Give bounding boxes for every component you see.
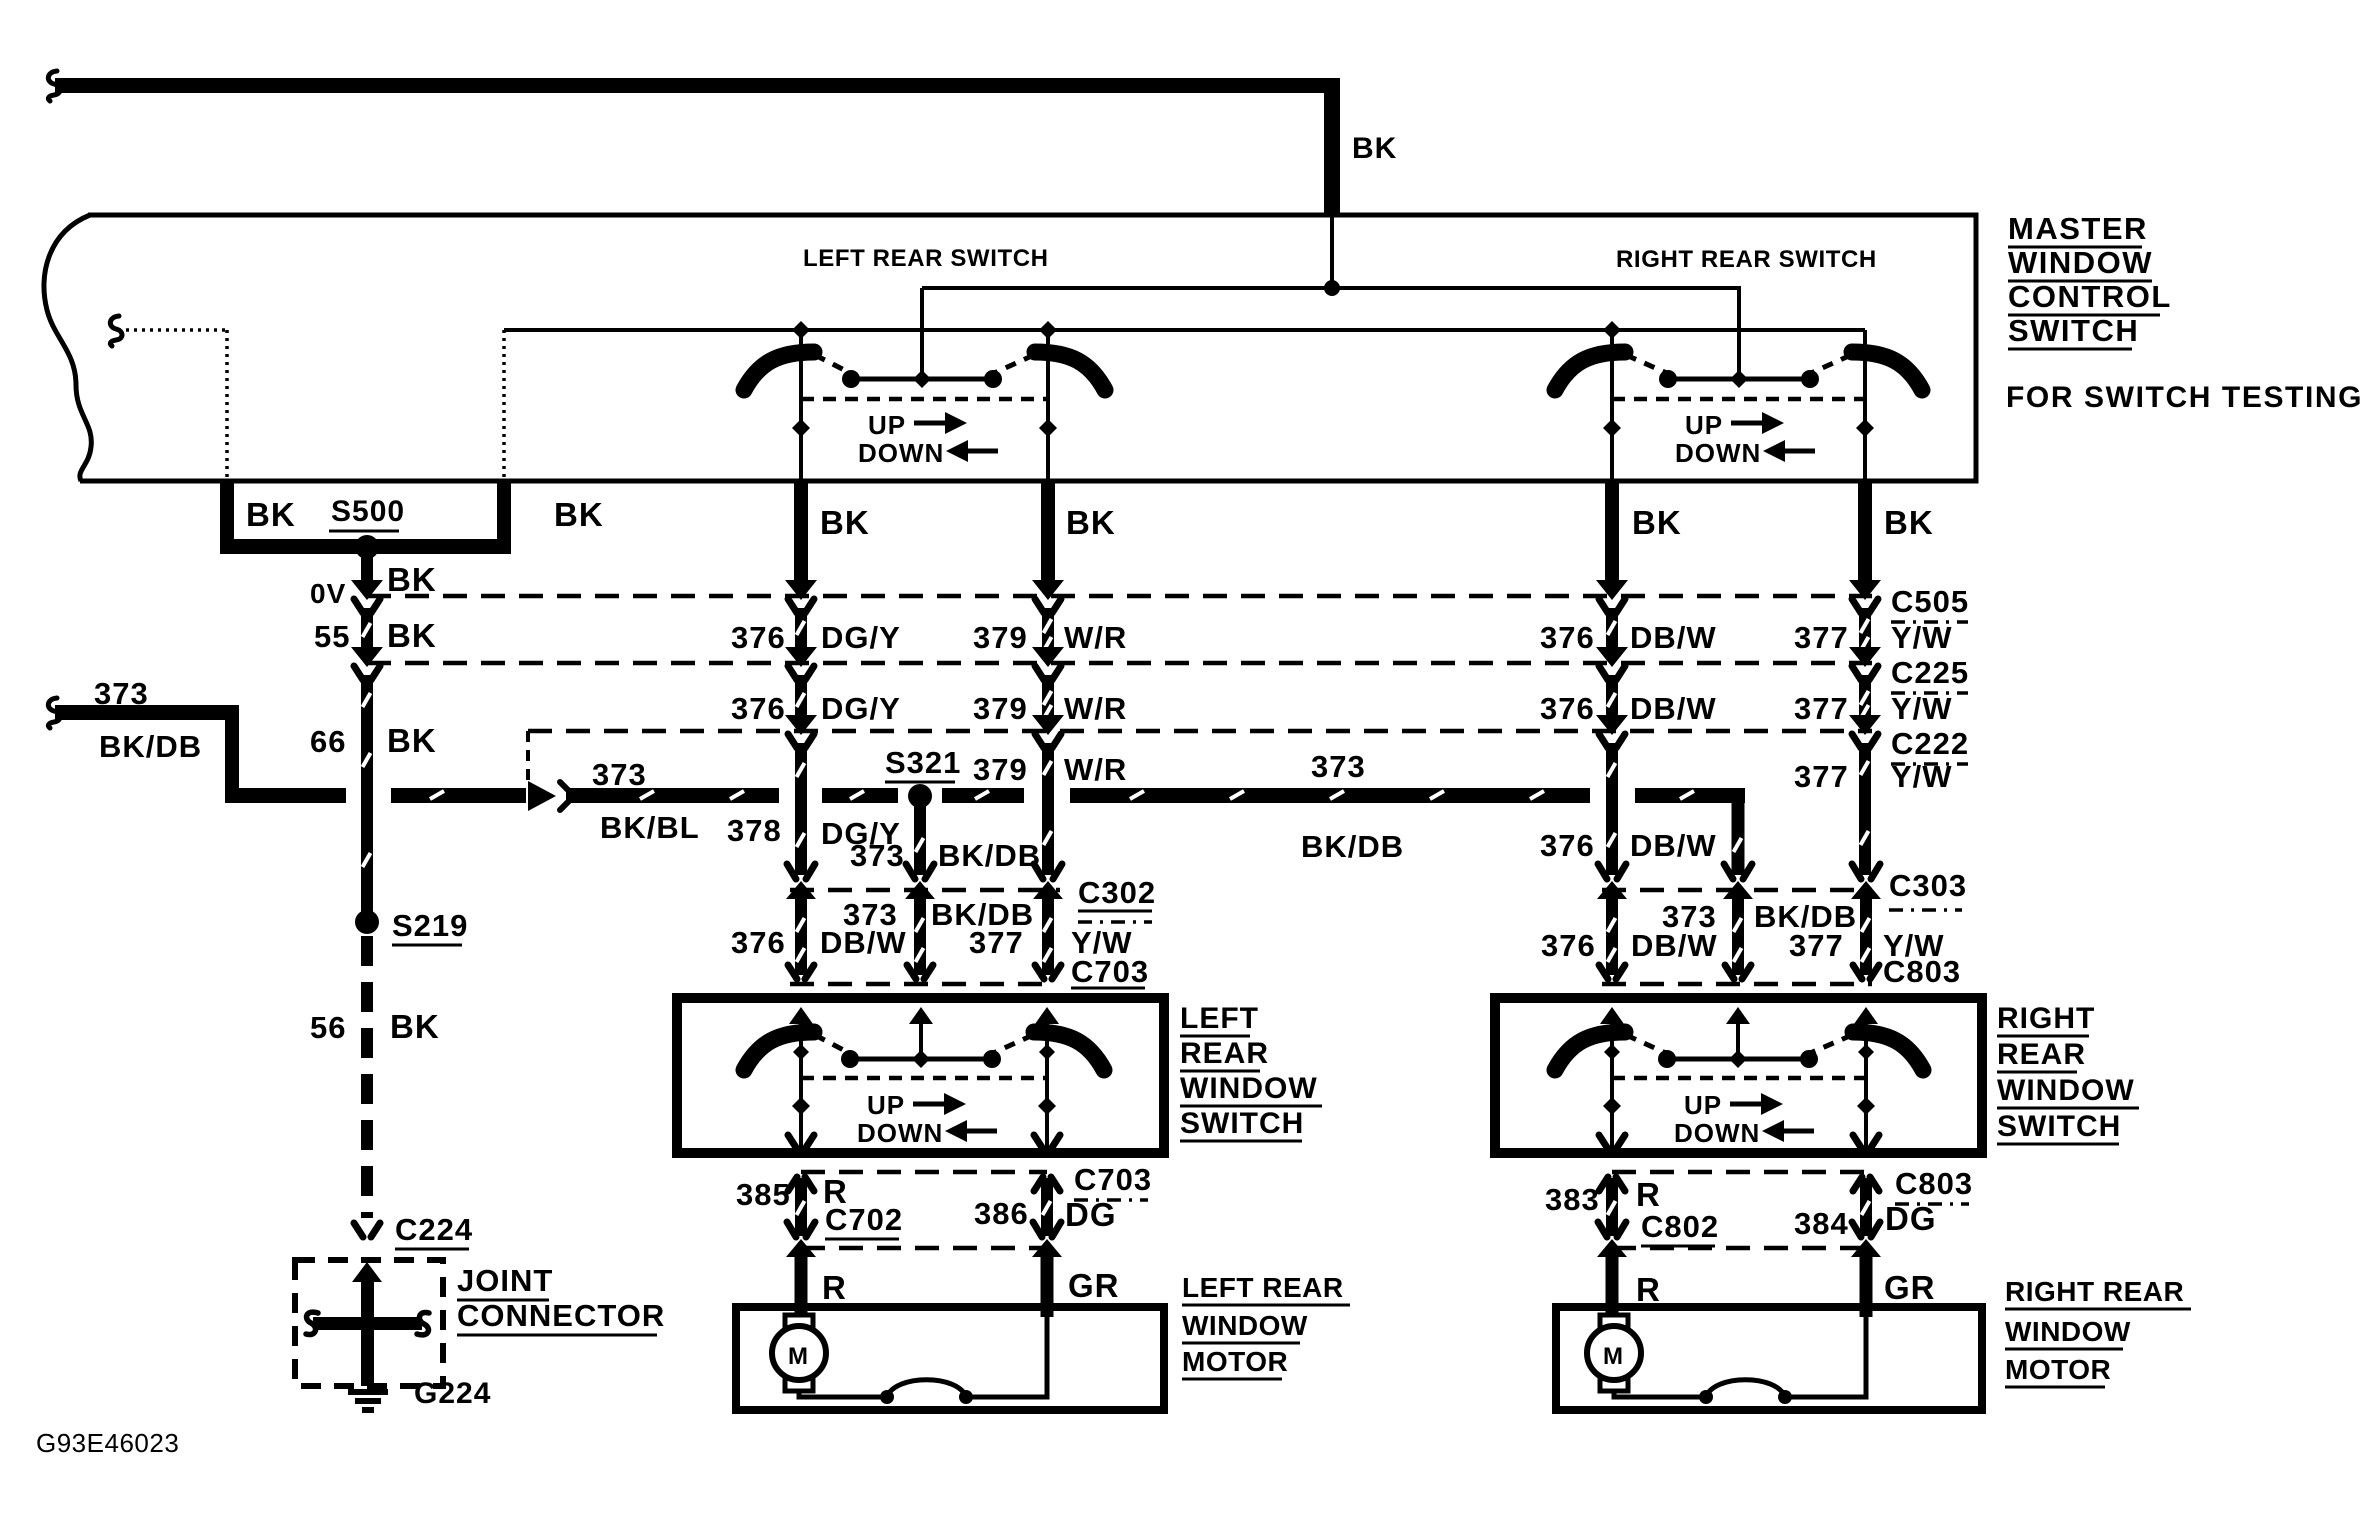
wire up-feed bus (thin) (504, 328, 1865, 332)
svg-text:DOWN: DOWN (1675, 438, 1761, 468)
wire BK master switch leg x=1048 (1041, 481, 1055, 581)
svg-text:S500: S500 (331, 495, 405, 528)
switch master right-rear right post wire (1863, 355, 1867, 481)
svg-text:DB/W: DB/W (1631, 928, 1718, 963)
node left rear left post upper (793, 1044, 809, 1060)
node left rear left post (792, 1097, 810, 1115)
svg-text:M: M (1603, 1343, 1624, 1370)
svg-text:S321: S321 (885, 745, 961, 780)
svg-text:C225: C225 (1891, 655, 1969, 690)
right rear switch right rocker arc (1853, 1032, 1923, 1070)
motor M left rear (772, 1315, 826, 1391)
wire 379 W/R lower (1042, 743, 1054, 875)
svg-text:BK: BK (1066, 504, 1116, 541)
label LEFT REAR WINDOW SWITCH (1180, 1002, 1322, 1141)
wire 373 BK/DB (S321 to C302) (914, 806, 926, 875)
svg-text:BK: BK (820, 504, 870, 541)
svg-text:376: 376 (731, 925, 786, 960)
wire 373 bus segment b (391, 788, 526, 803)
wire 377 Y/W (C303-C803) (1860, 898, 1872, 975)
svg-text:BK: BK (1352, 132, 1397, 165)
svg-text:376: 376 (731, 620, 786, 655)
node master left-rear left post (792, 419, 810, 437)
wire 377 Y/W (C302-C703) (1042, 898, 1054, 975)
svg-text:REAR: REAR (1180, 1037, 1269, 1070)
svg-text:BK/DB: BK/DB (1301, 829, 1404, 864)
svg-text:UP: UP (1685, 410, 1723, 440)
svg-text:376: 376 (1540, 828, 1595, 863)
wire 376 DB/W (1606, 608, 1618, 648)
svg-text:C703: C703 (1071, 954, 1149, 989)
svg-text:S219: S219 (392, 908, 468, 943)
svg-text:383: 383 (1545, 1182, 1600, 1217)
svg-text:C505: C505 (1891, 584, 1969, 619)
wire center contact bus (thin) (922, 286, 1741, 290)
svg-text:Y/W: Y/W (1891, 759, 1953, 794)
connector C224 prongs (354, 1223, 380, 1237)
svg-text:379: 379 (973, 620, 1028, 655)
wire 376 DB/W (C302-C703) (795, 898, 807, 975)
left rear switch right contact diagonal (991, 1035, 1033, 1054)
node master left-rear contact bar center (913, 370, 931, 388)
node left rear contact bar center (912, 1050, 930, 1068)
splice S219 (355, 910, 379, 934)
svg-text:DB/W: DB/W (1630, 828, 1717, 863)
svg-text:UP: UP (867, 1090, 905, 1120)
joint connector cross (306, 1262, 429, 1386)
wire 56 BK (dashed) (361, 936, 373, 1218)
wire BK master switch leg x=1865 (1858, 481, 1872, 581)
wire 373 bus segment a (225, 788, 346, 803)
switch master right-rear left post wire (1610, 330, 1614, 481)
switch master right-rear dashed crossbar (1612, 397, 1865, 402)
switch master left-rear right rocker arc (1035, 352, 1105, 390)
left rear switch dashed crossbar (801, 1076, 1047, 1081)
svg-text:BK: BK (1884, 504, 1934, 541)
label RIGHT REAR WINDOW SWITCH (1997, 1002, 2139, 1144)
splice S321 (908, 784, 932, 808)
left rear switch entry arrow x=1047 (1035, 1007, 1059, 1024)
connector row C803 below box (dashed) (1612, 1170, 1866, 1175)
svg-text:373: 373 (94, 676, 149, 711)
svg-text:BK: BK (387, 617, 437, 654)
svg-text:386: 386 (974, 1196, 1029, 1231)
svg-text:G93E46023: G93E46023 (36, 1428, 179, 1458)
svg-text:C802: C802 (1641, 1209, 1719, 1244)
svg-text:LEFT REAR: LEFT REAR (1182, 1272, 1344, 1303)
svg-text:RIGHT: RIGHT (1997, 1002, 2095, 1035)
svg-text:FOR SWITCH TESTING: FOR SWITCH TESTING (2006, 381, 2363, 414)
motor M right rear (1587, 1315, 1641, 1391)
svg-text:377: 377 (1794, 620, 1849, 655)
right rear switch left post wire (1610, 1024, 1614, 1148)
switch master right-rear contact bar (1667, 377, 1811, 382)
wire 66 BK (361, 675, 373, 916)
wire R to motor (1606, 1255, 1619, 1317)
svg-text:LEFT REAR SWITCH: LEFT REAR SWITCH (803, 245, 1049, 272)
left rear switch entry arrow x=921 (909, 1007, 933, 1024)
left rear switch entry arrow x=801 (789, 1007, 813, 1024)
wire break hook top left (48, 71, 60, 101)
svg-text:C803: C803 (1883, 954, 1961, 989)
switch master right-rear left rocker arc (1555, 352, 1625, 390)
svg-text:W/R: W/R (1064, 691, 1127, 726)
svg-text:373: 373 (850, 838, 905, 873)
wire 55 BK (361, 608, 373, 648)
node master left-rear right post (1039, 419, 1057, 437)
svg-text:REAR: REAR (1997, 1038, 2086, 1071)
wire up-feed stub left (118, 328, 227, 332)
svg-text:DG/Y: DG/Y (821, 691, 901, 726)
wire 373 BK/DB (bus to C303) (1732, 788, 1745, 875)
wire right switch center stem (1737, 288, 1741, 379)
wire 386 DG (1041, 1178, 1053, 1236)
connector row C302 (dashed) (790, 888, 1060, 893)
wire left switch center stem (920, 288, 924, 379)
wire 383 R (1606, 1178, 1618, 1236)
svg-text:379: 379 (973, 691, 1028, 726)
right rear switch entry arrow x=1866 (1854, 1007, 1878, 1024)
svg-text:DG/Y: DG/Y (821, 620, 901, 655)
svg-text:R: R (1636, 1271, 1661, 1308)
svg-text:Y/W: Y/W (1891, 691, 1953, 726)
node right rear right post (1857, 1097, 1875, 1115)
node up-feed bus at left switch right post (1039, 321, 1057, 339)
wire 384 DG (1860, 1178, 1872, 1236)
connector inline on 373 (male arrow) (528, 781, 556, 811)
left rear window motor box (736, 1307, 1164, 1410)
svg-text:LEFT: LEFT (1180, 1002, 1259, 1035)
svg-text:373: 373 (592, 757, 647, 792)
svg-text:UP: UP (868, 410, 906, 440)
wire 376 DB/W (1606, 675, 1618, 716)
left rear switch right post wire (1045, 1024, 1049, 1148)
wire motor bottom run right rear (1614, 1311, 1866, 1397)
connector row C803 above box (dashed) (1602, 982, 1872, 987)
svg-text:377: 377 (1794, 759, 1849, 794)
right rear switch right contact diagonal (1808, 1035, 1852, 1054)
wire 373 bus segment e (942, 788, 1024, 803)
svg-text:384: 384 (1794, 1206, 1849, 1241)
svg-text:GR: GR (1884, 1269, 1936, 1306)
svg-text:379: 379 (973, 752, 1028, 787)
svg-text:BK/BL: BK/BL (600, 810, 700, 845)
right rear switch left post exit prongs (1599, 1135, 1625, 1149)
svg-text:BK: BK (387, 561, 437, 598)
svg-text:376: 376 (1540, 620, 1595, 655)
wire 373 BK/DB entry (left) (55, 705, 239, 802)
node up-feed bus at right switch left post (1603, 321, 1621, 339)
right rear window motor box (1556, 1307, 1982, 1410)
connector row C703 below box (dashed) (801, 1170, 1047, 1175)
svg-text:BK/DB: BK/DB (99, 729, 202, 764)
node right rear contact bar center (1729, 1050, 1747, 1068)
wire BK stub from S500 (361, 556, 373, 582)
left rear switch right rocker arc (1034, 1032, 1104, 1070)
label MASTER WINDOW CONTROL SWITCH (2008, 211, 2172, 349)
wire GR to motor (1860, 1255, 1873, 1317)
svg-text:C803: C803 (1895, 1166, 1973, 1201)
wire BK drop into switch (thin) (1330, 215, 1334, 288)
left rear switch right post exit prongs (1034, 1135, 1060, 1149)
switch master left-rear left contact diagonal (dashed) (815, 355, 852, 374)
svg-text:BK: BK (387, 722, 437, 759)
svg-text:DOWN: DOWN (857, 1118, 943, 1148)
node right rear left post (1603, 1097, 1621, 1115)
svg-text:DOWN: DOWN (858, 438, 944, 468)
svg-text:GR: GR (1068, 1267, 1120, 1304)
left rear switch left post wire (799, 1024, 803, 1148)
svg-text:377: 377 (969, 925, 1024, 960)
switch master right-rear left contact diagonal (dashed) (1626, 355, 1669, 374)
wire 377 Y/W (1859, 675, 1871, 719)
svg-text:C302: C302 (1078, 875, 1156, 910)
svg-text:66: 66 (310, 724, 346, 759)
switch master left-rear dashed crossbar (801, 397, 1048, 402)
left rear switch contact bar (849, 1057, 993, 1062)
svg-text:CONTROL: CONTROL (2008, 279, 2172, 314)
node left rear right post (1038, 1097, 1056, 1115)
node junction on center bus (1324, 280, 1340, 296)
svg-text:RIGHT REAR SWITCH: RIGHT REAR SWITCH (1616, 246, 1877, 273)
svg-text:C222: C222 (1891, 726, 1969, 761)
svg-text:WINDOW: WINDOW (1180, 1072, 1318, 1105)
label LEFT REAR WINDOW MOTOR (1182, 1272, 1350, 1379)
splice S500 (355, 535, 379, 559)
connector row C702 (dashed) (801, 1246, 1047, 1251)
switch master left-rear left post wire (799, 330, 803, 481)
wire BK left leg to S500 (220, 481, 511, 554)
wire 373 BK/DB (C302-C703) (914, 898, 926, 975)
wire drop to S500 right leg (dotted) (502, 330, 506, 481)
right rear switch left rocker arc (1555, 1032, 1625, 1070)
right rear window switch box (1495, 998, 1982, 1153)
svg-text:WINDOW: WINDOW (1182, 1310, 1308, 1341)
svg-text:BK: BK (554, 496, 604, 533)
wire 377 Y/W (1859, 608, 1871, 651)
svg-text:373: 373 (1311, 749, 1366, 784)
svg-text:RIGHT REAR: RIGHT REAR (2005, 1276, 2184, 1307)
wire 378 DG/Y (795, 743, 807, 875)
svg-text:376: 376 (1541, 928, 1596, 963)
right rear switch center stem (1736, 1024, 1740, 1059)
right rear switch entry arrow x=1738 (1726, 1007, 1750, 1024)
svg-text:C703: C703 (1074, 1162, 1152, 1197)
svg-text:W/R: W/R (1064, 752, 1127, 787)
svg-text:R: R (1636, 1176, 1661, 1213)
node master right-rear contact bar center (1730, 370, 1748, 388)
switch master right-rear right contact diagonal (dashed) (1809, 355, 1851, 374)
svg-text:UP: UP (1684, 1090, 1722, 1120)
svg-text:DB/W: DB/W (820, 925, 907, 960)
svg-text:G224: G224 (414, 1377, 491, 1410)
wire 373 bus segment d (822, 788, 898, 803)
connector row C505 (dashed) (367, 594, 1872, 599)
svg-text:377: 377 (1789, 928, 1844, 963)
wire R to motor (795, 1255, 808, 1317)
svg-text:MASTER: MASTER (2008, 211, 2148, 246)
node right rear left post upper (1604, 1044, 1620, 1060)
svg-text:DG: DG (1885, 1200, 1937, 1237)
svg-text:CONNECTOR: CONNECTOR (457, 1298, 665, 1333)
svg-text:Y/W: Y/W (1891, 620, 1953, 655)
svg-text:0V: 0V (310, 578, 346, 609)
wire BK master switch leg x=1612 (1605, 481, 1619, 581)
svg-text:BK: BK (390, 1008, 440, 1045)
wire 373 bus segment g + corner down (1635, 788, 1745, 803)
connector row C802 (dashed) (1612, 1246, 1866, 1251)
wire drop to S500 left leg (dotted) (225, 330, 229, 481)
node master right-rear left post (1603, 419, 1621, 437)
svg-text:SWITCH: SWITCH (1180, 1107, 1304, 1140)
svg-text:R: R (822, 1269, 847, 1306)
wire 385 R (795, 1178, 807, 1236)
svg-text:377: 377 (1794, 691, 1849, 726)
svg-text:SWITCH: SWITCH (1997, 1110, 2121, 1143)
svg-text:JOINT: JOINT (457, 1263, 553, 1298)
svg-text:C303: C303 (1889, 868, 1967, 903)
switch master left-rear contact bar (850, 377, 994, 382)
svg-text:56: 56 (310, 1010, 346, 1045)
wire BK battery feed (top horizontal) (55, 78, 1340, 215)
svg-text:W/R: W/R (1064, 620, 1127, 655)
wire 376 DG/Y (795, 675, 807, 716)
node up-feed bus at left switch left post (792, 321, 810, 339)
svg-text:DG: DG (1065, 1196, 1117, 1233)
joint connector box (dashed) (295, 1260, 443, 1386)
wire 376 DB/W lower (1606, 743, 1618, 875)
svg-text:DOWN: DOWN (1674, 1118, 1760, 1148)
svg-text:WINDOW: WINDOW (2008, 245, 2153, 280)
node master right-rear right post (1856, 419, 1874, 437)
wire 376 DB/W (C303-C803) (1606, 898, 1618, 975)
connector row C703 above box (dashed) (790, 982, 1056, 987)
wire motor bottom run left rear (799, 1311, 1047, 1397)
svg-text:DB/W: DB/W (1630, 691, 1717, 726)
left rear switch left post exit prongs (788, 1135, 814, 1149)
wire 376 DG/Y (795, 608, 807, 648)
svg-text:C702: C702 (825, 1202, 903, 1237)
svg-text:C224: C224 (395, 1212, 473, 1247)
left rear window switch box (677, 998, 1164, 1153)
svg-text:MOTOR: MOTOR (1182, 1346, 1288, 1377)
wire 379 W/R (1042, 608, 1054, 651)
svg-text:385: 385 (736, 1177, 791, 1212)
svg-text:376: 376 (731, 691, 786, 726)
connector row C303 (dashed) (1602, 888, 1872, 893)
wire break hook on up-feed stub (110, 316, 122, 346)
ground G224 (348, 1392, 388, 1410)
switch master right-rear right rocker arc (1852, 352, 1922, 390)
right rear switch entry arrow x=1612 (1600, 1007, 1624, 1024)
wire 377 Y/W lower (1859, 743, 1871, 875)
master window control switch box outline (44, 215, 1976, 481)
switch master left-rear right contact diagonal (dashed) (992, 355, 1034, 374)
left rear switch left rocker arc (744, 1032, 814, 1070)
wire GR to motor (1041, 1255, 1054, 1317)
wire up-feed bus corner to right switch right post (1863, 330, 1867, 355)
switch master left-rear left rocker arc (744, 352, 814, 390)
right rear switch contact bar (1666, 1057, 1810, 1062)
svg-text:DB/W: DB/W (1630, 620, 1717, 655)
left rear switch center stem (919, 1024, 923, 1059)
svg-text:376: 376 (1540, 691, 1595, 726)
wire BK master switch leg x=801 (794, 481, 808, 581)
wire 373 BK/DB (C303-C803) (1732, 898, 1744, 975)
right rear switch right post wire (1864, 1024, 1868, 1148)
wire C222 corner drop (dashed) (526, 731, 530, 786)
label RIGHT REAR WINDOW MOTOR (2005, 1276, 2191, 1387)
svg-text:BK: BK (246, 496, 296, 533)
svg-text:WINDOW: WINDOW (2005, 1316, 2131, 1347)
switch master left-rear right post wire (1046, 330, 1050, 481)
wire 379 W/R (1042, 675, 1054, 719)
svg-text:55: 55 (314, 619, 350, 654)
right rear switch dashed crossbar (1612, 1076, 1866, 1081)
node left rear right post upper (1039, 1044, 1055, 1060)
right rear switch left contact diagonal (1626, 1035, 1668, 1054)
left rear switch left contact diagonal (815, 1035, 851, 1054)
right rear switch right post exit prongs (1853, 1135, 1879, 1149)
connector row C225 (dashed) (367, 661, 1872, 666)
wire 373 bus segment f (1070, 788, 1590, 803)
svg-text:WINDOW: WINDOW (1997, 1074, 2135, 1107)
svg-text:378: 378 (727, 813, 782, 848)
svg-text:MOTOR: MOTOR (2005, 1354, 2111, 1385)
node right rear right post upper (1858, 1044, 1874, 1060)
svg-text:BK/DB: BK/DB (938, 838, 1041, 873)
svg-text:M: M (788, 1343, 809, 1370)
connector row C222 (dashed) (528, 729, 1872, 734)
svg-text:BK: BK (1632, 504, 1682, 541)
svg-text:SWITCH: SWITCH (2008, 313, 2139, 348)
wire 373 bus segment c (566, 788, 779, 803)
